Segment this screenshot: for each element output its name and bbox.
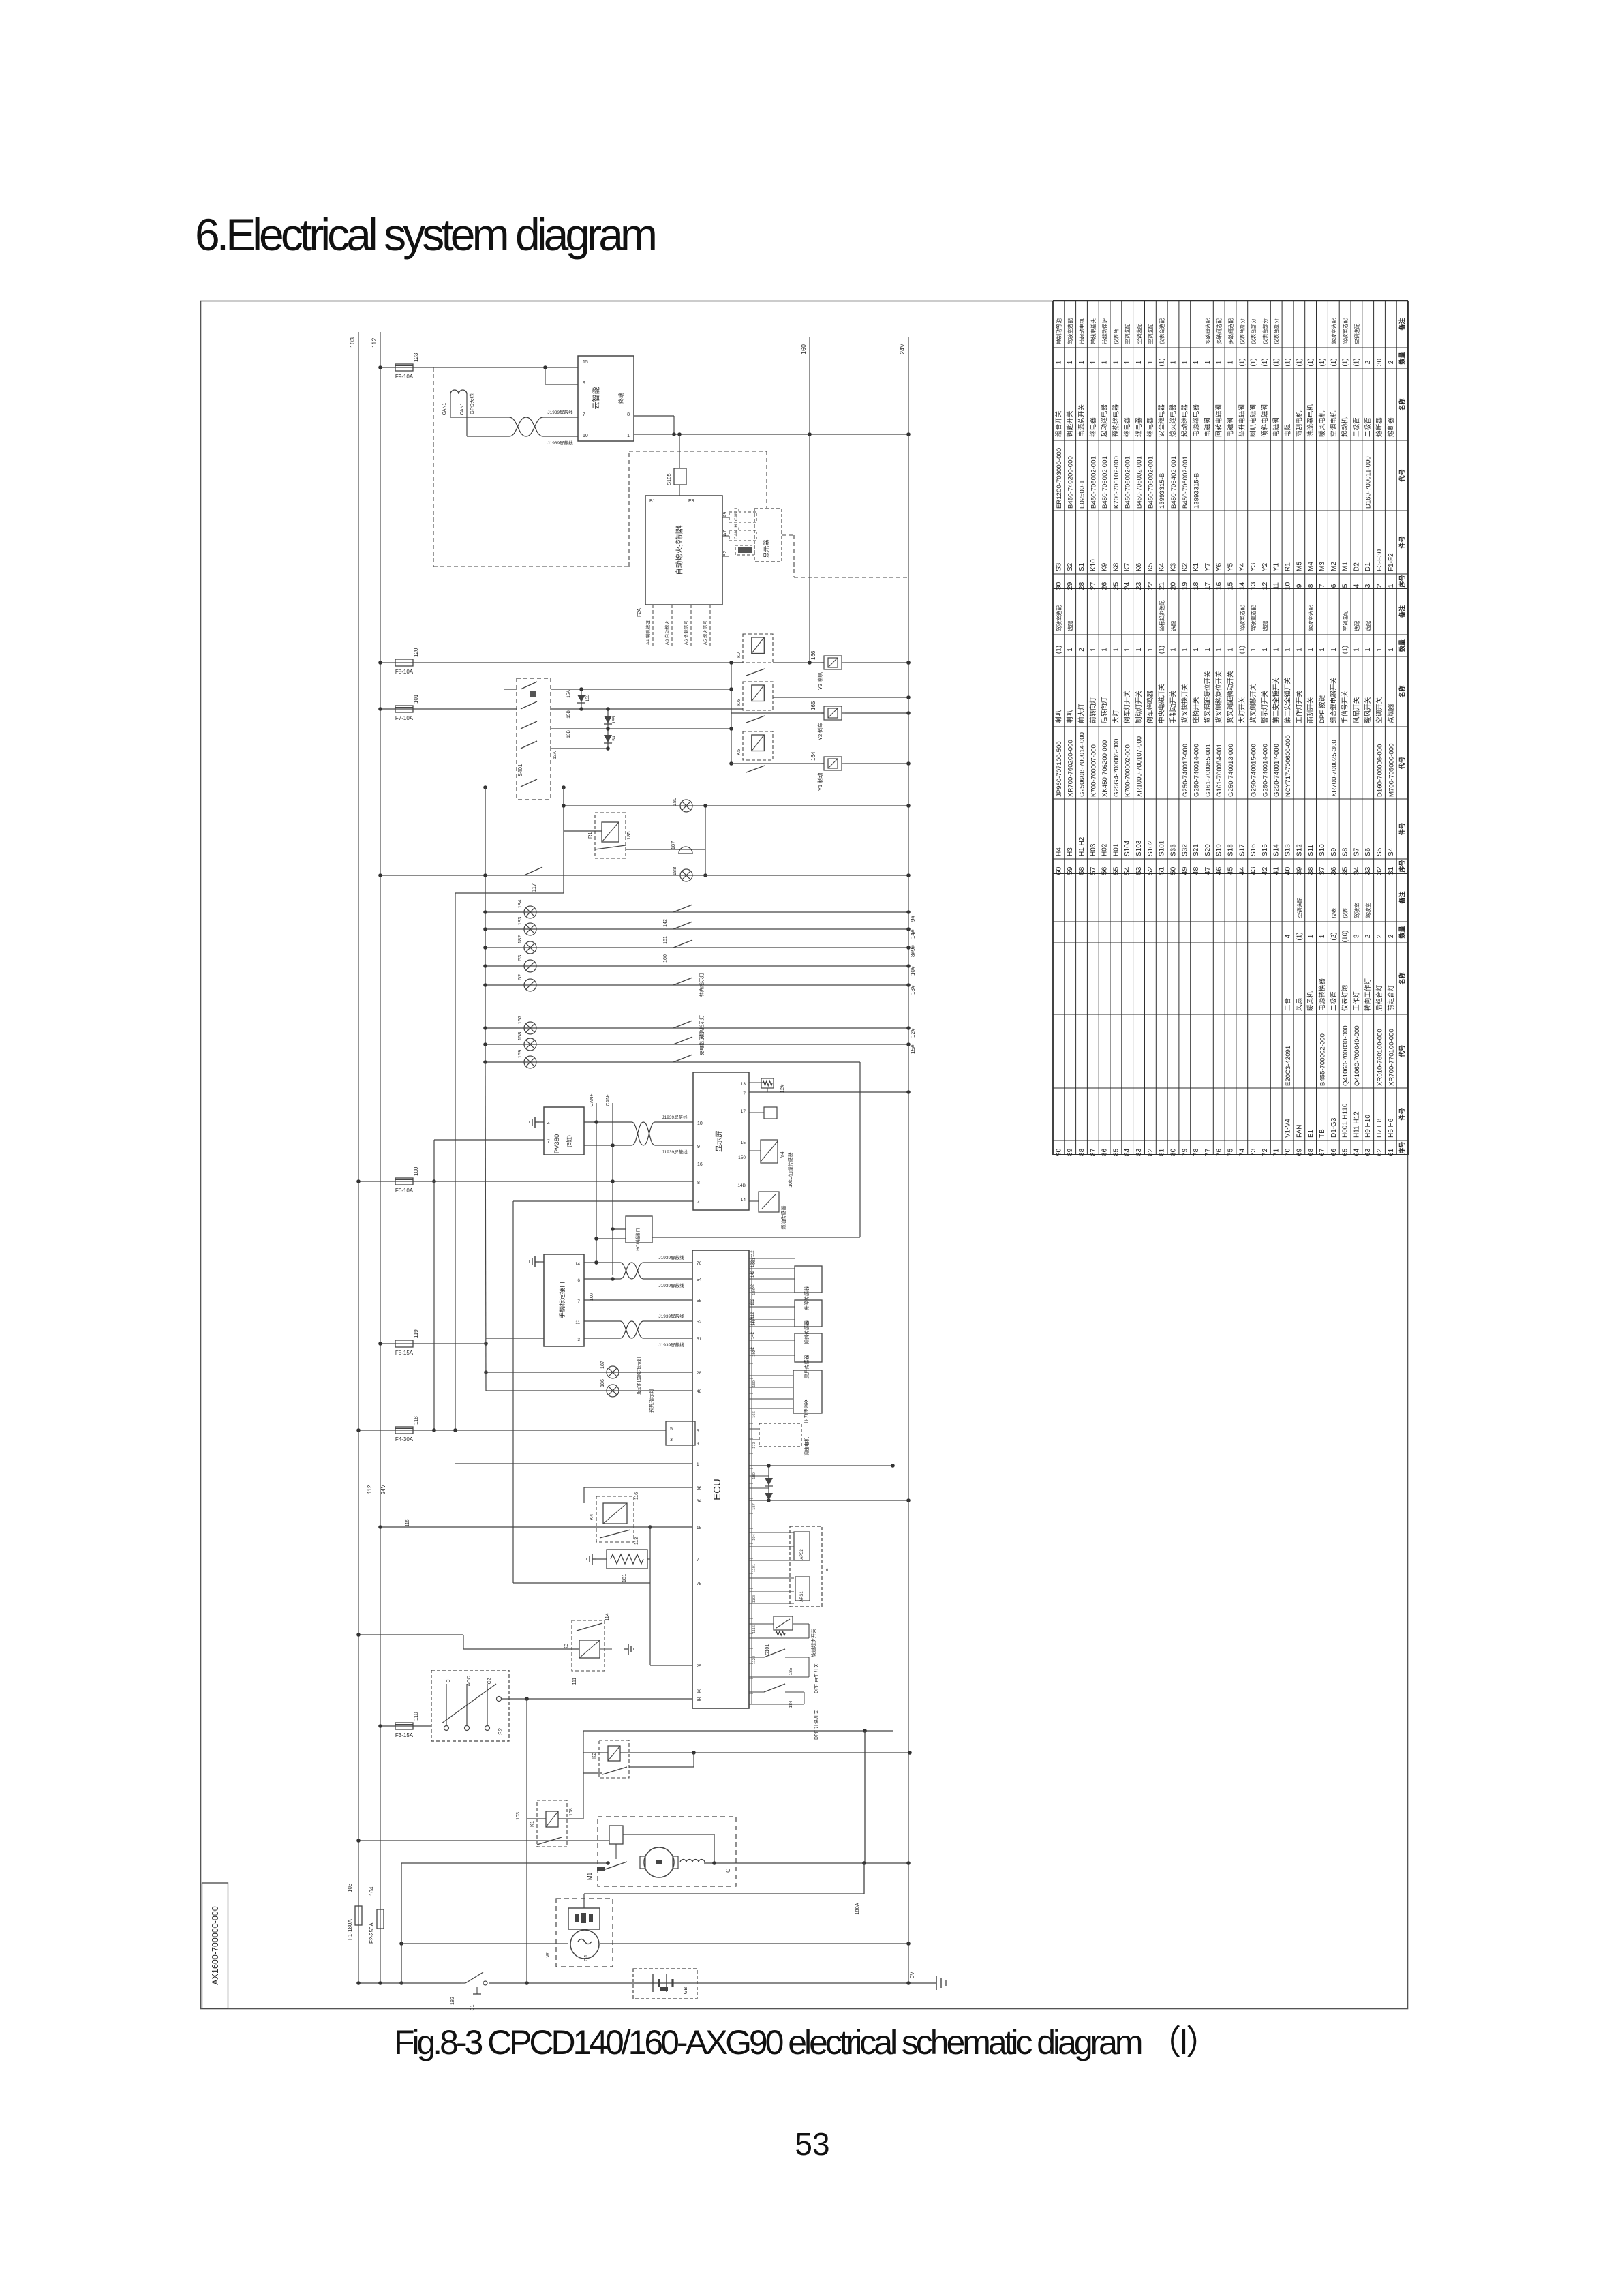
svg-text:53: 53 xyxy=(1135,867,1143,875)
svg-text:F3-15A: F3-15A xyxy=(395,1732,414,1738)
svg-text:F7-10A: F7-10A xyxy=(395,715,414,721)
svg-text:二极管: 二极管 xyxy=(1364,417,1372,437)
display small connector xyxy=(749,1112,764,1113)
svg-text:75: 75 xyxy=(1227,1149,1235,1157)
wire 123 from bus 112 to telematics box xyxy=(380,367,578,368)
svg-text:空调选配: 空调选配 xyxy=(1296,897,1302,918)
svg-text:4: 4 xyxy=(1352,584,1360,588)
svg-text:Y4: Y4 xyxy=(1238,562,1246,571)
svg-text:B450-706402-001: B450-706402-001 xyxy=(1170,456,1178,509)
wire from K6 xyxy=(773,697,908,698)
svg-text:4: 4 xyxy=(697,1200,700,1205)
svg-text:51: 51 xyxy=(1158,867,1166,875)
svg-text:26: 26 xyxy=(1101,582,1109,590)
pressure sensor box xyxy=(793,1370,822,1413)
svg-text:88: 88 xyxy=(1077,1149,1086,1157)
svg-text:1: 1 xyxy=(1204,360,1212,364)
svg-text:多路阀选配: 多路阀选配 xyxy=(1216,318,1223,344)
svg-text:H5 H6: H5 H6 xyxy=(1388,1118,1395,1138)
svg-text:24: 24 xyxy=(1123,582,1131,590)
svg-text:165: 165 xyxy=(810,701,816,710)
PV380 left pin wire to 637 xyxy=(434,1139,544,1141)
svg-text:D1-G3: D1-G3 xyxy=(1330,1117,1338,1138)
svg-text:驾驶室选配: 驾驶室选配 xyxy=(1342,318,1349,344)
svg-text:Y3 喇叭: Y3 喇叭 xyxy=(816,671,823,690)
relay K2 (dashed) xyxy=(599,1740,629,1778)
svg-text:184: 184 xyxy=(789,1700,793,1708)
svg-text:24V: 24V xyxy=(899,344,906,354)
svg-text:(1): (1) xyxy=(1296,932,1303,940)
svg-text:工作灯开关: 工作灯开关 xyxy=(1295,691,1303,723)
svg-text:1101: 1101 xyxy=(752,1564,756,1572)
svg-text:仪表: 仪表 xyxy=(1330,907,1337,918)
svg-text:4: 4 xyxy=(547,1121,550,1126)
svg-text:空调选配: 空调选配 xyxy=(1147,323,1154,344)
svg-text:Y5: Y5 xyxy=(1227,562,1235,571)
svg-text:13A: 13A xyxy=(553,751,557,759)
svg-text:F3-F30: F3-F30 xyxy=(1376,549,1383,571)
fuse F8-10A xyxy=(395,659,413,666)
svg-text:103: 103 xyxy=(347,1883,353,1892)
wire 2240 long xyxy=(380,1526,692,1528)
svg-text:37: 37 xyxy=(1318,867,1326,875)
svg-text:52: 52 xyxy=(1146,867,1154,875)
svg-text:1: 1 xyxy=(1147,360,1154,364)
svg-text:1: 1 xyxy=(1193,648,1200,652)
svg-text:CAN1: CAN1 xyxy=(460,403,465,416)
svg-text:2: 2 xyxy=(1078,648,1086,652)
svg-text:2: 2 xyxy=(1375,584,1383,588)
vertical feed 712 xyxy=(485,787,486,1062)
svg-text:103: 103 xyxy=(516,1812,521,1820)
svg-text:货叉侧移开关: 货叉侧移开关 xyxy=(1249,684,1257,723)
svg-text:中央电磁开关: 中央电磁开关 xyxy=(1158,684,1166,723)
solenoid Y1 xyxy=(824,757,842,770)
svg-text:S19: S19 xyxy=(1216,844,1223,856)
svg-text:1: 1 xyxy=(1181,360,1189,364)
wire 165 xyxy=(731,712,824,714)
svg-text:手柄标定接口: 手柄标定接口 xyxy=(558,1282,566,1318)
svg-text:154: 154 xyxy=(612,736,617,743)
svg-text:电源转换器: 电源转换器 xyxy=(1318,978,1326,1011)
twisted pair J1939 to telematics xyxy=(450,417,509,418)
governor dashed box xyxy=(759,1423,801,1447)
svg-text:1: 1 xyxy=(1250,648,1257,652)
svg-text:数量: 数量 xyxy=(1398,639,1406,652)
svg-text:57: 57 xyxy=(1089,867,1097,875)
svg-text:20: 20 xyxy=(1169,582,1178,590)
svg-text:Q41060-700040-000: Q41060-700040-000 xyxy=(1353,1025,1361,1086)
svg-text:1: 1 xyxy=(1078,360,1086,364)
svg-text:11: 11 xyxy=(1272,582,1281,590)
wire 15A to relays xyxy=(551,689,731,690)
svg-text:110: 110 xyxy=(413,1712,419,1721)
svg-text:1: 1 xyxy=(1307,934,1315,938)
svg-text:142: 142 xyxy=(751,1270,755,1278)
ECU right pin tiny labels xyxy=(749,1258,753,1259)
svg-text:142: 142 xyxy=(751,1331,755,1339)
svg-text:182: 182 xyxy=(751,1346,755,1354)
svg-text:显示屏: 显示屏 xyxy=(715,1130,723,1152)
svg-text:K6: K6 xyxy=(1135,562,1143,571)
svg-text:58: 58 xyxy=(1077,867,1086,875)
motor M xyxy=(644,1847,674,1877)
svg-text:FAN: FAN xyxy=(1296,1125,1303,1138)
svg-text:仪表台部分: 仪表台部分 xyxy=(1261,318,1268,344)
svg-text:12#: 12# xyxy=(910,1028,916,1038)
buzzer wire xyxy=(626,849,705,850)
svg-text:序号: 序号 xyxy=(1398,860,1406,872)
svg-text:Y7: Y7 xyxy=(1204,562,1212,571)
svg-text:驾驶室选配: 驾驶室选配 xyxy=(1250,605,1257,631)
svg-text:Y6: Y6 xyxy=(1216,562,1223,571)
relay R1 horn (dashed) xyxy=(595,813,626,858)
svg-text:手信号开关: 手信号开关 xyxy=(1341,691,1349,723)
svg-text:A3 自动熄火: A3 自动熄火 xyxy=(664,620,670,645)
svg-text:选配: 选配 xyxy=(1353,620,1360,631)
svg-text:K4: K4 xyxy=(1159,562,1166,571)
svg-text:14: 14 xyxy=(741,1198,746,1203)
svg-text:制动灯开关: 制动灯开关 xyxy=(1135,691,1143,723)
battery switch S1 xyxy=(461,1982,465,1984)
display monitor (dashed) xyxy=(754,509,782,562)
svg-text:10kΩ油量传感器: 10kΩ油量传感器 xyxy=(787,1152,793,1188)
svg-text:112: 112 xyxy=(751,1250,755,1257)
svg-text:JP960-707100-500: JP960-707100-500 xyxy=(1056,741,1063,797)
svg-text:F2-250A: F2-250A xyxy=(369,1922,375,1944)
svg-text:1: 1 xyxy=(1090,360,1097,364)
svg-text:107: 107 xyxy=(588,1293,594,1301)
svg-text:(1): (1) xyxy=(1159,646,1166,654)
svg-text:B450-740200-000: B450-740200-000 xyxy=(1067,456,1075,509)
svg-text:73: 73 xyxy=(1249,1149,1257,1157)
svg-text:12: 12 xyxy=(1261,582,1269,590)
svg-text:E1: E1 xyxy=(1307,1129,1315,1138)
svg-text:F1-F2: F1-F2 xyxy=(1388,553,1395,571)
svg-text:第二安全锤开关: 第二安全锤开关 xyxy=(1284,677,1292,723)
svg-text:9: 9 xyxy=(697,1145,700,1149)
svg-text:CAN1: CAN1 xyxy=(442,403,447,416)
svg-text:(1): (1) xyxy=(1296,358,1303,366)
wire K2 coil out xyxy=(620,1752,910,1753)
svg-text:Y2: Y2 xyxy=(1261,562,1269,571)
svg-text:M5: M5 xyxy=(1296,562,1303,571)
svg-text:B1: B1 xyxy=(649,499,656,504)
svg-text:空调开关: 空调开关 xyxy=(1375,697,1383,723)
wire 753 to 954 xyxy=(513,1582,650,1584)
svg-text:S1: S1 xyxy=(469,2004,475,2010)
svg-text:K1: K1 xyxy=(529,1821,535,1827)
display unit box xyxy=(693,1072,749,1210)
svg-text:2: 2 xyxy=(1364,934,1372,938)
svg-text:坐标起步选配: 坐标起步选配 xyxy=(1159,600,1165,631)
svg-text:件号: 件号 xyxy=(1398,536,1406,548)
vline 713 extension xyxy=(485,1062,486,1391)
svg-text:1: 1 xyxy=(1090,648,1097,652)
svg-text:R1: R1 xyxy=(1285,562,1292,571)
svg-text:G161-700084-001: G161-700084-001 xyxy=(1216,744,1223,797)
svg-text:G250-740014-000: G250-740014-000 xyxy=(1261,744,1269,797)
svg-text:1: 1 xyxy=(1147,648,1154,652)
svg-text:H3: H3 xyxy=(1067,847,1074,856)
auto flameout controller A1 xyxy=(645,496,722,605)
svg-text:HCU插接口: HCU插接口 xyxy=(634,1228,641,1251)
svg-text:1: 1 xyxy=(1124,360,1131,364)
PV380 CAN wires xyxy=(584,1121,632,1123)
svg-text:15: 15 xyxy=(741,1141,746,1145)
svg-text:电源继电器: 电源继电器 xyxy=(1192,404,1200,437)
svg-text:S12: S12 xyxy=(1296,844,1303,856)
svg-text:调速电机: 调速电机 xyxy=(804,1437,810,1456)
svg-text:1115: 1115 xyxy=(752,1625,756,1633)
svg-text:S401: S401 xyxy=(517,764,523,776)
svg-text:风扇开关: 风扇开关 xyxy=(1352,697,1360,723)
wire 166 horn valve xyxy=(773,662,824,663)
svg-text:6: 6 xyxy=(577,1278,580,1283)
svg-text:手制动开关: 手制动开关 xyxy=(1169,691,1178,723)
svg-text:选配: 选配 xyxy=(1067,620,1073,631)
svg-text:H4: H4 xyxy=(1055,847,1062,856)
svg-text:1: 1 xyxy=(1112,360,1120,364)
svg-text:S3: S3 xyxy=(1055,562,1062,571)
svg-text:166: 166 xyxy=(752,1411,756,1418)
svg-text:NCY717-700600-000: NCY717-700600-000 xyxy=(1285,735,1292,797)
svg-text:名称: 名称 xyxy=(1398,685,1406,697)
svg-text:S8: S8 xyxy=(1342,847,1349,856)
wire 164 xyxy=(731,763,824,764)
wire 100 to display pin 8 xyxy=(434,1181,693,1182)
relay K4 (dashed) xyxy=(596,1496,634,1542)
svg-text:货叉侧移复位开关: 货叉侧移复位开关 xyxy=(1215,671,1223,723)
wire from pin 9 up to wire 123 xyxy=(545,367,546,384)
svg-text:选配: 选配 xyxy=(1261,620,1268,631)
svg-text:F2A: F2A xyxy=(637,608,642,617)
bus 24V (right vertical) xyxy=(908,337,909,1983)
generator circle xyxy=(570,1930,599,1959)
svg-text:仪表台: 仪表台 xyxy=(1112,329,1119,344)
svg-text:43: 43 xyxy=(1249,867,1257,875)
starter motor box M1 (dashed) xyxy=(598,1817,736,1886)
svg-text:142: 142 xyxy=(663,919,668,927)
svg-text:后组合灯: 后组合灯 xyxy=(1375,984,1383,1011)
svg-text:25: 25 xyxy=(1112,582,1120,590)
svg-text:185: 185 xyxy=(626,831,632,840)
svg-text:1: 1 xyxy=(697,1462,699,1467)
ignition switch S401 (dashed) xyxy=(517,678,551,800)
svg-text:V1-V4: V1-V4 xyxy=(1285,1119,1292,1138)
svg-text:S1: S1 xyxy=(1078,562,1086,571)
wire from telematics pin 1 to bus 24V xyxy=(634,434,908,435)
svg-text:XR010-760100-000: XR010-760100-000 xyxy=(1377,1029,1384,1086)
svg-text:继电器: 继电器 xyxy=(1135,417,1143,437)
svg-text:倒车蜂鸣器: 倒车蜂鸣器 xyxy=(1146,691,1154,723)
svg-text:55: 55 xyxy=(1112,867,1120,875)
svg-text:(1): (1) xyxy=(1342,358,1349,366)
svg-text:带起动保护: 带起动保护 xyxy=(1101,318,1108,344)
svg-text:76: 76 xyxy=(1215,1149,1223,1157)
DPF regen switch xyxy=(749,1657,764,1658)
fuel sensor xyxy=(749,1200,759,1202)
svg-text:1: 1 xyxy=(1135,360,1143,364)
svg-text:181: 181 xyxy=(621,1574,627,1583)
svg-text:空调电机: 空调电机 xyxy=(1330,410,1338,437)
svg-text:S32: S32 xyxy=(1181,844,1189,856)
svg-text:S11: S11 xyxy=(1307,845,1315,856)
svg-text:暖风电机: 暖风电机 xyxy=(1318,410,1326,437)
svg-text:1: 1 xyxy=(1307,648,1315,652)
svg-text:S7: S7 xyxy=(1353,847,1360,856)
wire relay coil xyxy=(564,830,602,832)
svg-text:起动继电器: 起动继电器 xyxy=(1101,404,1109,437)
svg-text:D1: D1 xyxy=(1364,562,1372,571)
svg-text:101: 101 xyxy=(413,694,419,704)
vline 589 xyxy=(401,1863,402,1983)
svg-text:名称: 名称 xyxy=(1398,398,1406,410)
svg-text:S2: S2 xyxy=(498,1728,504,1735)
svg-text:B450-706002-001: B450-706002-001 xyxy=(1182,456,1189,509)
svg-text:雨刮电机: 雨刮电机 xyxy=(1295,410,1303,437)
svg-text:2: 2 xyxy=(1376,934,1383,938)
svg-text:27: 27 xyxy=(1089,582,1097,590)
svg-text:B450-706002-001: B450-706002-001 xyxy=(1101,456,1109,509)
svg-text:16: 16 xyxy=(1215,582,1223,590)
svg-text:喇叭: 喇叭 xyxy=(1054,710,1062,723)
svg-text:Y2 倒车: Y2 倒车 xyxy=(816,722,823,740)
svg-text:S18: S18 xyxy=(1227,844,1235,856)
svg-text:1: 1 xyxy=(1216,360,1223,364)
svg-text:45: 45 xyxy=(1227,867,1235,875)
svg-text:119: 119 xyxy=(413,1329,419,1338)
starter solenoid C1 xyxy=(609,1826,623,1844)
svg-text:F4-30A: F4-30A xyxy=(395,1436,414,1442)
svg-text:K1: K1 xyxy=(1193,562,1200,571)
svg-text:F1-180A: F1-180A xyxy=(347,1919,353,1940)
svg-text:继电器: 继电器 xyxy=(1123,417,1131,437)
svg-text:电磁阀: 电磁阀 xyxy=(1227,417,1235,437)
svg-text:108: 108 xyxy=(569,1808,574,1816)
wire to display pin 4 xyxy=(513,1200,693,1202)
svg-text:驾驶室选配: 驾驶室选配 xyxy=(1055,605,1062,631)
svg-text:空调选配: 空调选配 xyxy=(1124,323,1131,344)
svg-text:G250-740015-000: G250-740015-000 xyxy=(1251,744,1258,797)
svg-text:带线束插头: 带线束插头 xyxy=(1090,318,1097,344)
svg-text:APS1: APS1 xyxy=(800,1591,804,1602)
svg-text:8: 8 xyxy=(627,412,630,417)
svg-text:起动机: 起动机 xyxy=(1341,417,1349,437)
svg-text:3: 3 xyxy=(1353,934,1360,938)
CAN vertical pair xyxy=(596,1103,597,1265)
svg-text:1: 1 xyxy=(1101,648,1109,652)
svg-text:发动机故障指示灯: 发动机故障指示灯 xyxy=(636,1357,642,1395)
svg-text:组合继电器开关: 组合继电器开关 xyxy=(1330,677,1338,723)
svg-text:后转向灯: 后转向灯 xyxy=(1101,697,1109,723)
svg-text:44: 44 xyxy=(1238,867,1246,875)
svg-text:60: 60 xyxy=(1054,867,1062,875)
svg-text:15#: 15# xyxy=(910,1044,916,1054)
svg-text:K5: K5 xyxy=(735,749,741,755)
svg-text:驾驶室: 驾驶室 xyxy=(1364,903,1371,918)
engine fault lamp row xyxy=(486,1372,692,1373)
svg-text:E3: E3 xyxy=(688,499,694,504)
ground right end xyxy=(936,1976,937,1990)
regulator xyxy=(568,1908,600,1929)
svg-text:1: 1 xyxy=(1261,648,1269,652)
svg-text:S15: S15 xyxy=(1261,844,1269,856)
svg-text:驾驶室选配: 驾驶室选配 xyxy=(1067,318,1073,344)
svg-text:F9-10A: F9-10A xyxy=(395,374,414,380)
svg-text:J1939屏蔽线: J1939屏蔽线 xyxy=(662,1114,688,1120)
fuse F2-250A on bus 112 xyxy=(377,1909,384,1929)
ECU main box xyxy=(692,1250,749,1708)
svg-text:前转向灯: 前转向灯 xyxy=(1089,697,1097,723)
indicator lamp row 182 xyxy=(485,947,908,948)
svg-text:预热指示灯: 预热指示灯 xyxy=(648,1389,654,1413)
svg-text:15B: 15B xyxy=(566,710,571,719)
svg-text:G250-740014-000: G250-740014-000 xyxy=(1193,744,1201,797)
svg-text:A6 负载信号: A6 负载信号 xyxy=(683,620,689,645)
svg-text:59: 59 xyxy=(1066,867,1074,875)
svg-text:3: 3 xyxy=(577,1338,580,1342)
svg-text:111: 111 xyxy=(572,1678,577,1685)
svg-text:带起动电机: 带起动电机 xyxy=(1078,318,1085,344)
svg-text:仪表台部分: 仪表台部分 xyxy=(1273,318,1280,344)
svg-text:(1): (1) xyxy=(1159,358,1166,366)
svg-text:空调选配: 空调选配 xyxy=(1342,610,1349,631)
svg-text:1: 1 xyxy=(1273,648,1281,652)
svg-text:(1): (1) xyxy=(1238,646,1246,654)
wire K1 coil feed xyxy=(527,1818,546,1819)
svg-text:Fig.8-3 CPCD140/160-AXG90 elec: Fig.8-3 CPCD140/160-AXG90 electrical sch… xyxy=(394,2023,1220,2061)
bottom return wire xyxy=(358,1982,461,1984)
svg-text:1: 1 xyxy=(1330,648,1338,652)
svg-text:S33: S33 xyxy=(1170,844,1178,856)
svg-text:XR700-700025-300: XR700-700025-300 xyxy=(1330,740,1338,797)
svg-text:燃油传感器: 燃油传感器 xyxy=(780,1206,786,1230)
svg-text:(1): (1) xyxy=(1238,358,1246,366)
svg-text:14#: 14# xyxy=(910,929,916,939)
svg-text:3: 3 xyxy=(670,1438,673,1442)
svg-text:162: 162 xyxy=(751,1284,755,1291)
svg-text:14B: 14B xyxy=(737,1183,746,1188)
svg-text:79: 79 xyxy=(1180,1149,1189,1157)
svg-text:TB: TB xyxy=(823,1568,829,1575)
svg-text:S17: S17 xyxy=(1238,844,1246,856)
svg-text:D160-700006-000: D160-700006-000 xyxy=(1377,744,1384,797)
gauge PV380 xyxy=(544,1107,584,1155)
svg-text:G1: G1 xyxy=(583,1954,589,1961)
handle calibration box xyxy=(544,1254,584,1346)
svg-text:3: 3 xyxy=(697,1442,699,1447)
svg-text:158: 158 xyxy=(517,1032,523,1041)
svg-text:88: 88 xyxy=(697,1689,702,1694)
svg-text:1: 1 xyxy=(1227,360,1235,364)
svg-text:40: 40 xyxy=(1284,867,1292,875)
svg-text:67: 67 xyxy=(1318,1149,1326,1157)
svg-text:61: 61 xyxy=(1387,1149,1395,1157)
svg-text:69: 69 xyxy=(1295,1149,1303,1157)
svg-text:68: 68 xyxy=(1306,1149,1315,1157)
svg-text:H03: H03 xyxy=(1090,843,1097,856)
fuse F7-10A xyxy=(395,706,413,712)
svg-text:M1: M1 xyxy=(587,1872,593,1880)
svg-text:29: 29 xyxy=(1066,582,1074,590)
svg-text:10#: 10# xyxy=(910,966,916,976)
svg-text:7: 7 xyxy=(547,1139,550,1144)
svg-text:CAN_L: CAN_L xyxy=(734,507,739,521)
svg-text:CAN+: CAN+ xyxy=(590,1094,594,1107)
svg-text:(1): (1) xyxy=(1319,358,1326,366)
svg-text:驾驶室选配: 驾驶室选配 xyxy=(1238,605,1245,631)
